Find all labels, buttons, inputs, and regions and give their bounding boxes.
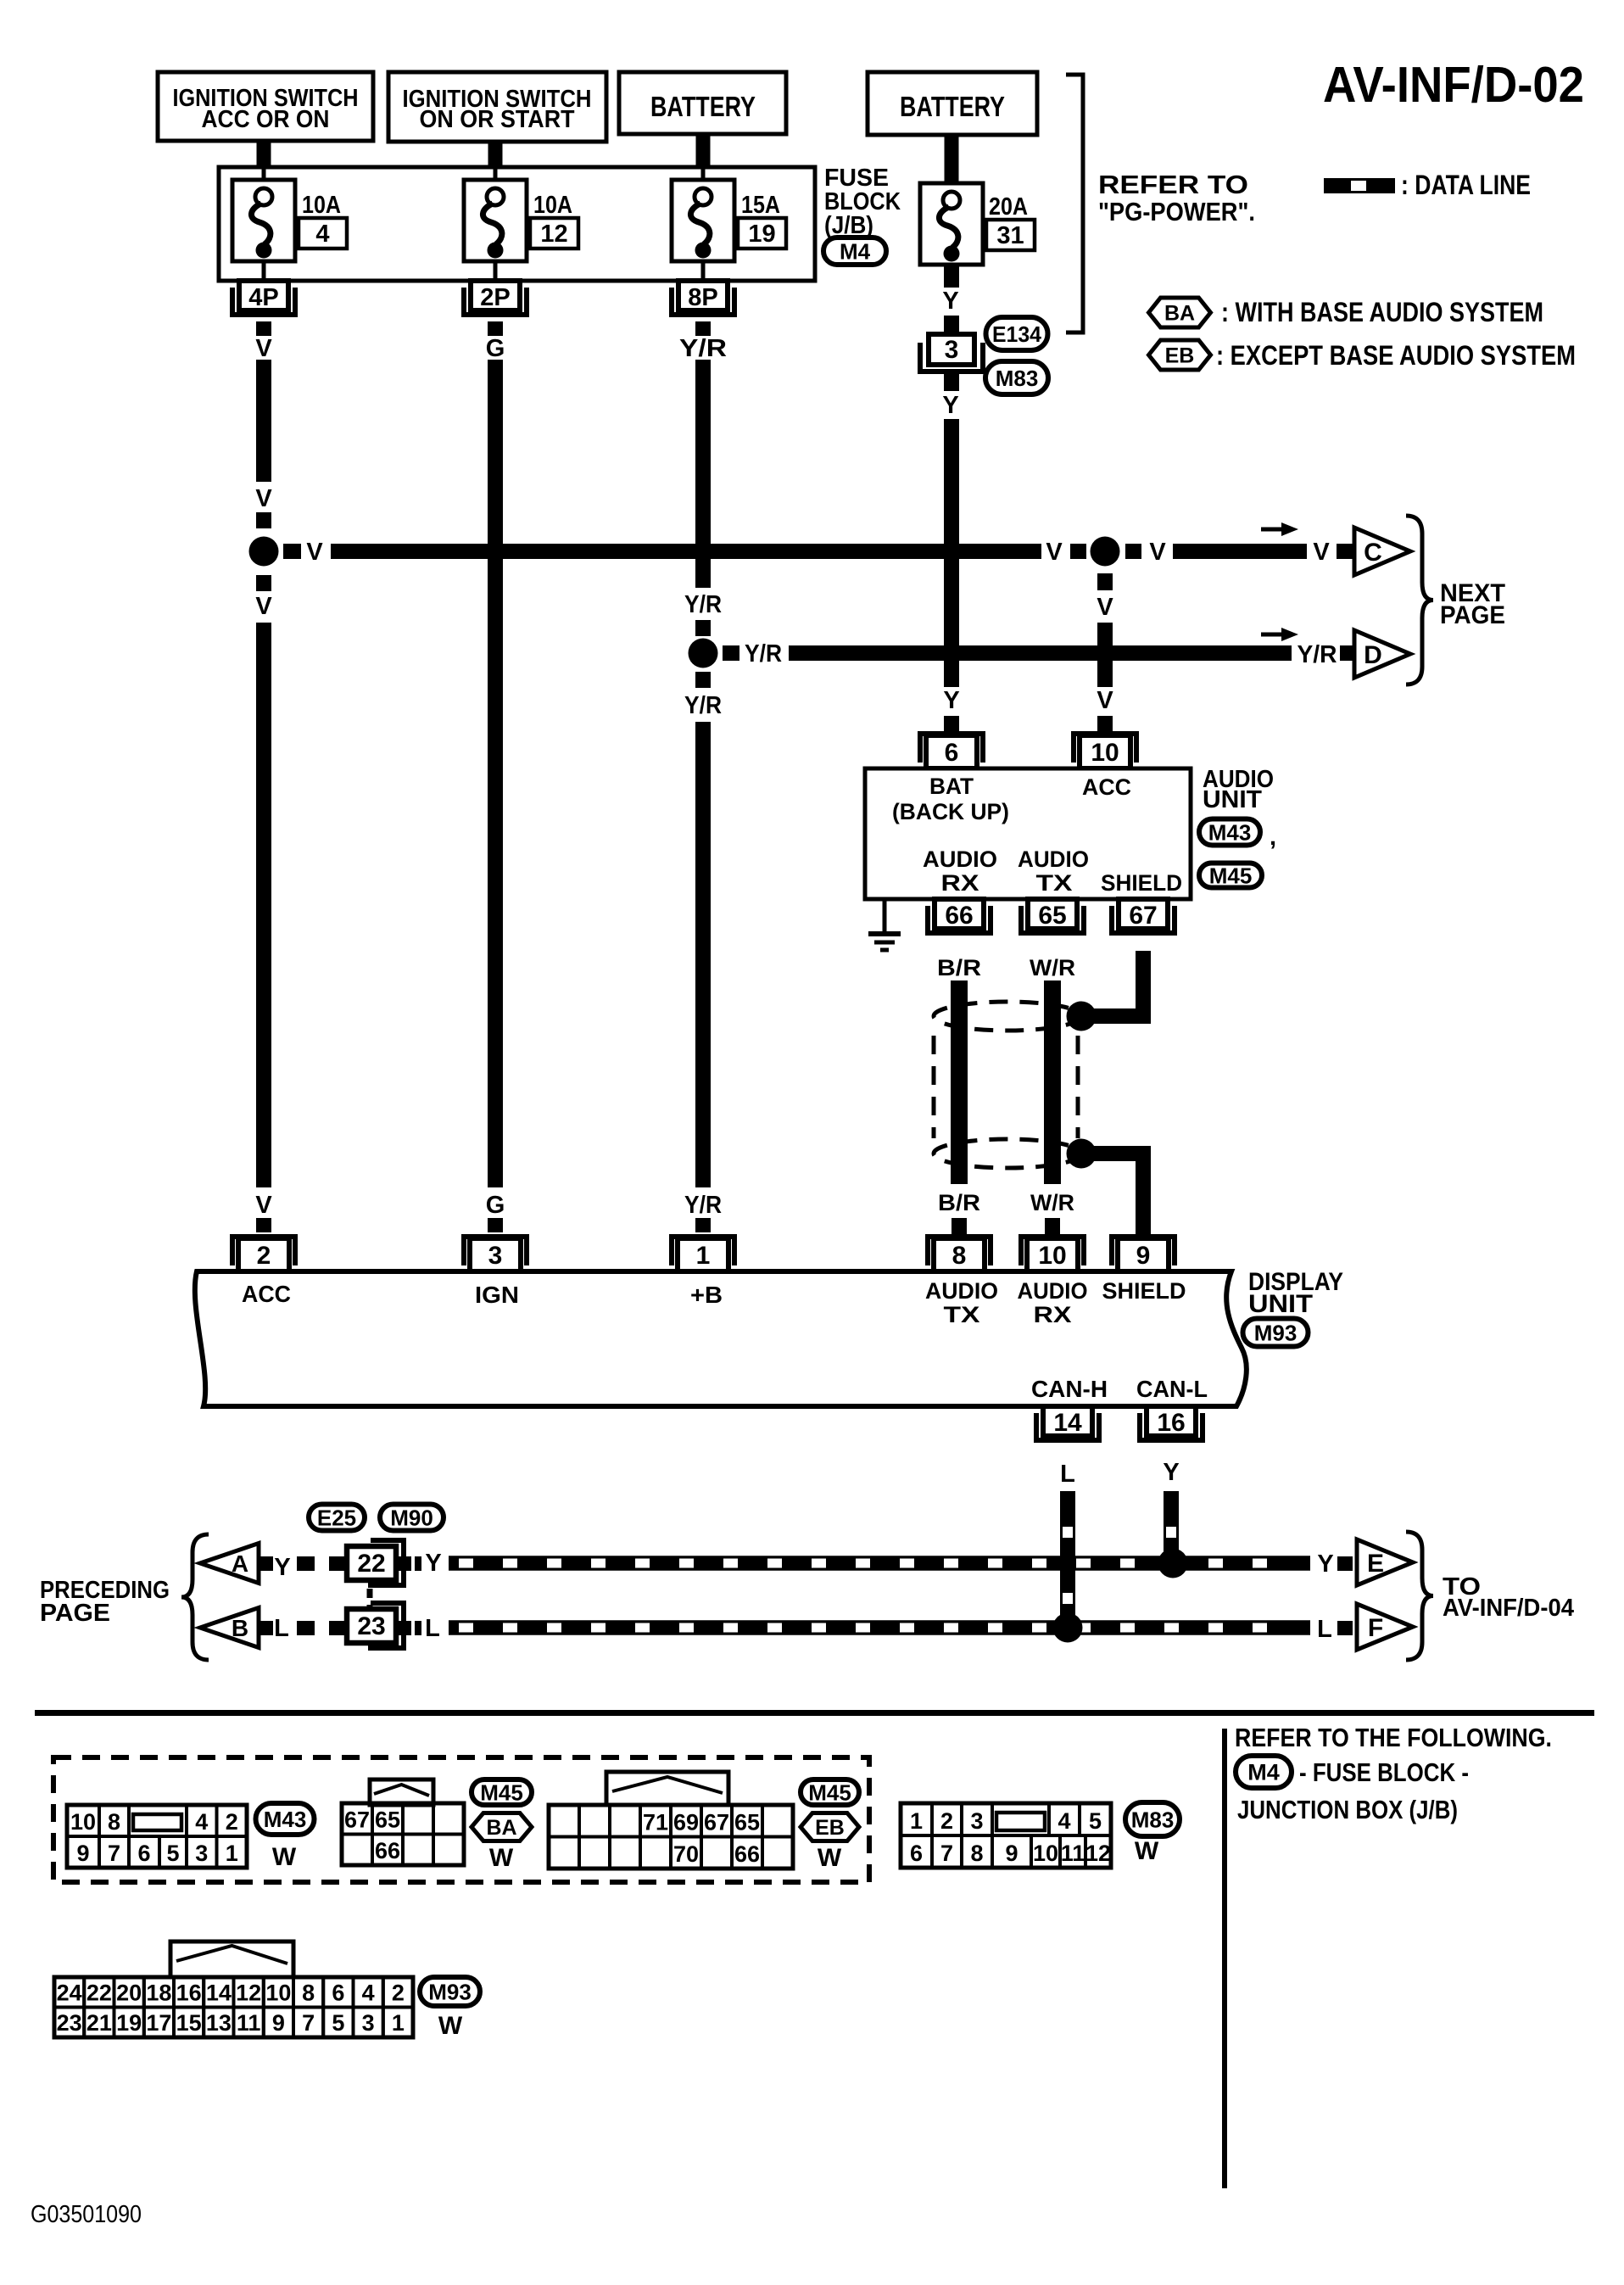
svg-text:AUDIO: AUDIO xyxy=(1018,1278,1088,1304)
svg-text:UNIT: UNIT xyxy=(1203,786,1262,813)
svg-text:19: 19 xyxy=(748,221,775,248)
svg-text:5: 5 xyxy=(1089,1808,1102,1834)
svg-text:M93: M93 xyxy=(428,1979,472,2004)
svg-text:10: 10 xyxy=(1091,739,1119,767)
svg-text:8: 8 xyxy=(952,1242,967,1270)
svg-text:M4: M4 xyxy=(1247,1760,1280,1785)
svg-text:REFER TO: REFER TO xyxy=(1098,170,1248,199)
svg-text:M43: M43 xyxy=(1208,819,1252,845)
svg-text:B: B xyxy=(232,1615,248,1641)
svg-text:W: W xyxy=(489,1844,514,1872)
svg-text:10: 10 xyxy=(70,1809,96,1835)
svg-text:M83: M83 xyxy=(996,366,1039,391)
svg-text:6: 6 xyxy=(332,1981,344,2006)
svg-text:66: 66 xyxy=(375,1838,400,1863)
svg-text:14: 14 xyxy=(206,1981,232,2006)
svg-text:4: 4 xyxy=(362,1981,375,2006)
svg-text:W: W xyxy=(272,1843,297,1871)
svg-text:3: 3 xyxy=(945,336,959,364)
svg-text:10: 10 xyxy=(1033,1841,1058,1866)
svg-text:6: 6 xyxy=(945,739,959,767)
svg-text:PAGE: PAGE xyxy=(40,1600,110,1627)
svg-text:18: 18 xyxy=(146,1981,171,2006)
svg-text:12: 12 xyxy=(1085,1841,1111,1866)
svg-text:CAN-H: CAN-H xyxy=(1031,1376,1108,1402)
svg-text:6: 6 xyxy=(137,1841,150,1866)
svg-text:W: W xyxy=(1135,1837,1159,1865)
svg-text:2P: 2P xyxy=(480,284,510,311)
svg-text:8P: 8P xyxy=(688,284,717,311)
svg-text:2: 2 xyxy=(257,1242,271,1270)
svg-text:70: 70 xyxy=(673,1841,699,1867)
svg-text:TX: TX xyxy=(1036,870,1073,896)
svg-text:1: 1 xyxy=(392,2010,405,2036)
svg-text:F: F xyxy=(1368,1614,1383,1642)
svg-text:9: 9 xyxy=(1136,1242,1151,1270)
svg-text:16: 16 xyxy=(1157,1409,1185,1437)
svg-text:BA: BA xyxy=(486,1816,516,1840)
svg-text:BA: BA xyxy=(1164,302,1195,326)
svg-text:W: W xyxy=(818,1844,842,1872)
svg-text:M90: M90 xyxy=(390,1505,433,1530)
svg-text:7: 7 xyxy=(108,1841,120,1866)
svg-text:ACC: ACC xyxy=(1082,774,1131,800)
svg-text:"PG-POWER".: "PG-POWER". xyxy=(1098,197,1255,226)
svg-text:24: 24 xyxy=(57,1981,82,2006)
svg-text:CAN-L: CAN-L xyxy=(1136,1376,1208,1402)
svg-text:69: 69 xyxy=(673,1810,699,1835)
svg-text:4: 4 xyxy=(195,1809,208,1835)
svg-text:10A: 10A xyxy=(533,192,572,219)
svg-text:BATTERY: BATTERY xyxy=(900,91,1005,122)
svg-text:6: 6 xyxy=(910,1841,923,1866)
svg-text:16: 16 xyxy=(176,1981,202,2006)
svg-text:V: V xyxy=(1313,539,1330,566)
svg-text:4P: 4P xyxy=(248,284,278,311)
svg-text:V: V xyxy=(255,335,272,362)
svg-text:C: C xyxy=(1364,539,1382,567)
svg-text:10A: 10A xyxy=(302,192,341,219)
svg-text:66: 66 xyxy=(734,1841,760,1867)
svg-text:M93: M93 xyxy=(1254,1320,1298,1345)
svg-text:65: 65 xyxy=(1038,902,1066,930)
svg-text:8: 8 xyxy=(108,1809,120,1835)
svg-text:W/R: W/R xyxy=(1030,1190,1074,1215)
svg-text:- FUSE BLOCK -: - FUSE BLOCK - xyxy=(1299,1757,1469,1787)
svg-text:15: 15 xyxy=(176,2010,202,2036)
svg-text:10: 10 xyxy=(265,1981,291,2006)
svg-text:ON OR START: ON OR START xyxy=(420,106,575,133)
svg-text:20A: 20A xyxy=(989,193,1028,221)
svg-text:D: D xyxy=(1364,641,1382,669)
svg-text:L: L xyxy=(425,1615,440,1642)
svg-text:(BACK UP): (BACK UP) xyxy=(892,799,1009,824)
svg-text:EB: EB xyxy=(1165,344,1195,368)
svg-text:8: 8 xyxy=(302,1981,315,2006)
svg-text:3: 3 xyxy=(970,1808,983,1834)
svg-text:: EXCEPT BASE AUDIO SYSTEM: : EXCEPT BASE AUDIO SYSTEM xyxy=(1216,340,1576,371)
svg-text:17: 17 xyxy=(146,2010,171,2036)
svg-text:V: V xyxy=(255,485,272,512)
svg-text:JUNCTION BOX (J/B): JUNCTION BOX (J/B) xyxy=(1237,1795,1458,1824)
svg-text:BAT: BAT xyxy=(929,774,974,799)
svg-text:L: L xyxy=(1060,1461,1075,1488)
svg-text:Y/R: Y/R xyxy=(745,640,782,668)
svg-text:71: 71 xyxy=(643,1810,668,1835)
svg-text:SHIELD: SHIELD xyxy=(1102,1278,1186,1304)
svg-text:UNIT: UNIT xyxy=(1248,1290,1313,1318)
svg-text:V: V xyxy=(255,593,272,620)
svg-text:ACC: ACC xyxy=(242,1281,291,1307)
svg-text:67: 67 xyxy=(344,1807,370,1833)
svg-text:4: 4 xyxy=(315,221,329,248)
svg-text:Y/R: Y/R xyxy=(684,692,722,719)
svg-text:V: V xyxy=(1097,687,1113,714)
svg-text:M43: M43 xyxy=(264,1807,307,1832)
svg-text:3: 3 xyxy=(488,1242,503,1270)
svg-text:Y/R: Y/R xyxy=(1298,641,1337,668)
svg-text:11: 11 xyxy=(237,2010,261,2036)
svg-text:8: 8 xyxy=(970,1841,983,1866)
svg-text:IGN: IGN xyxy=(475,1282,519,1308)
svg-text:E134: E134 xyxy=(992,321,1042,347)
svg-text:3: 3 xyxy=(362,2010,375,2036)
svg-text:23: 23 xyxy=(57,2010,82,2036)
svg-text:67: 67 xyxy=(1129,902,1157,930)
svg-text:19: 19 xyxy=(116,2010,142,2036)
svg-text:E: E xyxy=(1367,1550,1384,1578)
svg-text:M83: M83 xyxy=(1131,1807,1175,1832)
svg-text:G03501090: G03501090 xyxy=(31,2201,142,2228)
svg-text:Y/R: Y/R xyxy=(684,1192,722,1219)
svg-text:4: 4 xyxy=(1058,1808,1070,1834)
svg-text:AUDIO: AUDIO xyxy=(1018,846,1089,872)
svg-text:EB: EB xyxy=(815,1816,845,1840)
svg-text:+B: +B xyxy=(690,1282,723,1308)
svg-text:1: 1 xyxy=(226,1841,238,1866)
svg-text:RX: RX xyxy=(1034,1302,1072,1327)
svg-text:31: 31 xyxy=(996,222,1024,249)
svg-text:67: 67 xyxy=(704,1810,729,1835)
svg-text:Y: Y xyxy=(1163,1459,1179,1486)
svg-text:BATTERY: BATTERY xyxy=(650,91,756,122)
svg-text:1: 1 xyxy=(696,1242,711,1270)
svg-text:V: V xyxy=(1046,539,1063,566)
svg-text:Y/R: Y/R xyxy=(684,591,722,618)
svg-text:V: V xyxy=(1149,539,1166,566)
svg-text:22: 22 xyxy=(357,1550,385,1578)
svg-text:9: 9 xyxy=(272,2010,285,2036)
svg-text:12: 12 xyxy=(540,221,567,248)
svg-text:ACC OR ON: ACC OR ON xyxy=(202,106,330,133)
svg-text:Y: Y xyxy=(943,687,959,714)
svg-text:M45: M45 xyxy=(480,1779,523,1805)
svg-text:W/R: W/R xyxy=(1030,955,1075,980)
svg-text:2: 2 xyxy=(392,1981,405,2006)
svg-text:Y: Y xyxy=(942,288,958,315)
svg-text:AV-INF/D-02: AV-INF/D-02 xyxy=(1323,57,1584,113)
svg-text:1: 1 xyxy=(910,1808,923,1834)
svg-text:V: V xyxy=(255,1192,272,1219)
svg-text:G: G xyxy=(486,1192,505,1219)
svg-text:B/R: B/R xyxy=(938,1190,980,1215)
svg-text:Y: Y xyxy=(425,1550,441,1577)
svg-text:SHIELD: SHIELD xyxy=(1101,870,1182,896)
svg-text:REFER TO THE FOLLOWING.: REFER TO THE FOLLOWING. xyxy=(1235,1723,1552,1752)
svg-text:2: 2 xyxy=(226,1809,238,1835)
svg-text:2: 2 xyxy=(940,1808,953,1834)
svg-text:L: L xyxy=(274,1615,289,1642)
svg-text:: WITH BASE AUDIO SYSTEM: : WITH BASE AUDIO SYSTEM xyxy=(1221,297,1543,327)
svg-text:M45: M45 xyxy=(1209,863,1253,888)
svg-text:22: 22 xyxy=(87,1981,112,2006)
svg-text:21: 21 xyxy=(87,2010,112,2036)
svg-text:Y: Y xyxy=(1317,1550,1333,1578)
svg-text:66: 66 xyxy=(945,902,973,930)
svg-text:A: A xyxy=(232,1550,248,1577)
svg-text:: DATA LINE: : DATA LINE xyxy=(1401,170,1531,200)
svg-text:65: 65 xyxy=(734,1810,760,1835)
svg-text:PAGE: PAGE xyxy=(1440,601,1505,629)
svg-text:15A: 15A xyxy=(741,192,780,219)
svg-text:G: G xyxy=(486,335,505,362)
svg-text:12: 12 xyxy=(236,1981,261,2006)
svg-text:Y: Y xyxy=(274,1554,290,1581)
svg-text:7: 7 xyxy=(940,1841,953,1866)
svg-text:TX: TX xyxy=(944,1302,980,1327)
svg-text:9: 9 xyxy=(76,1841,89,1866)
svg-text:Y/R: Y/R xyxy=(679,335,727,362)
svg-text:E25: E25 xyxy=(317,1505,356,1530)
svg-text:3: 3 xyxy=(195,1841,208,1866)
svg-text:23: 23 xyxy=(357,1612,385,1640)
svg-text:20: 20 xyxy=(116,1981,142,2006)
svg-text:W: W xyxy=(438,2012,463,2040)
svg-text:,: , xyxy=(1270,824,1276,851)
svg-text:Y: Y xyxy=(942,392,958,419)
svg-text:11: 11 xyxy=(1061,1841,1085,1866)
svg-text:5: 5 xyxy=(332,2010,344,2036)
svg-text:AUDIO: AUDIO xyxy=(923,846,997,872)
svg-text:AV-INF/D-04: AV-INF/D-04 xyxy=(1443,1595,1574,1622)
svg-text:M45: M45 xyxy=(808,1779,851,1805)
svg-text:7: 7 xyxy=(302,2010,315,2036)
svg-text:65: 65 xyxy=(375,1807,400,1833)
svg-text:14: 14 xyxy=(1053,1409,1082,1437)
svg-text:M4: M4 xyxy=(840,238,871,264)
svg-text:AUDIO: AUDIO xyxy=(925,1278,998,1304)
svg-text:V: V xyxy=(1097,594,1113,621)
svg-text:RX: RX xyxy=(941,870,979,896)
svg-text:10: 10 xyxy=(1038,1242,1066,1270)
svg-text:V: V xyxy=(306,539,323,566)
svg-text:B/R: B/R xyxy=(937,955,981,980)
svg-text:13: 13 xyxy=(206,2010,232,2036)
svg-text:9: 9 xyxy=(1005,1841,1018,1866)
svg-text:L: L xyxy=(1317,1616,1332,1643)
svg-text:5: 5 xyxy=(166,1841,179,1866)
